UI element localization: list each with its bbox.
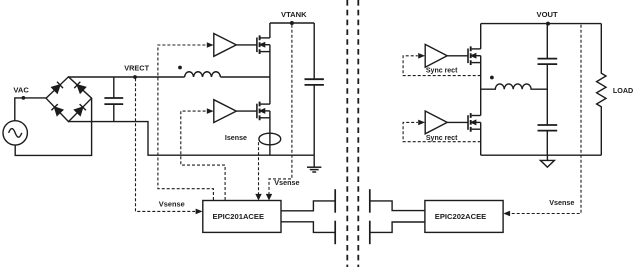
svg-text:Vsense: Vsense bbox=[549, 198, 574, 207]
dashed wire gate drive 1 bbox=[158, 45, 214, 200]
dashed wire sync sense bottom bbox=[403, 122, 481, 141]
node VRECT dot bbox=[133, 75, 137, 79]
arrow into driver U1B bbox=[207, 108, 214, 114]
IC U2 EPIC201ACEE box bbox=[203, 201, 281, 233]
arrow into driver U1A bbox=[207, 42, 214, 48]
wire switch node vertical bbox=[269, 45, 271, 104]
gate driver U1B bbox=[214, 100, 237, 123]
wire VRECT rail bbox=[69, 76, 185, 78]
transistor Q2 bbox=[257, 102, 270, 121]
bridge rectifier diamond bbox=[46, 77, 92, 122]
wire U1B output to Q2 gate bbox=[236, 110, 257, 112]
capacitor plate right top bbox=[369, 189, 371, 213]
node VTANK dot bbox=[290, 21, 294, 25]
transistor Q4 bbox=[468, 113, 481, 132]
wire bottom rail right bbox=[481, 154, 602, 156]
arrow into EPIC201 top (Isense) bbox=[255, 194, 261, 201]
wire VOUT top rail bbox=[481, 23, 602, 25]
dashed wire gate drive 2 bbox=[181, 111, 225, 200]
wire L1 to switch node bbox=[220, 76, 270, 78]
arrow into driver U4B bbox=[418, 120, 425, 126]
wire Q1 drain up bbox=[269, 23, 271, 38]
svg-text:VRECT: VRECT bbox=[124, 63, 149, 72]
arrow into driver U4A bbox=[418, 53, 425, 59]
dashed wire Vsense from VTANK node bbox=[269, 25, 292, 194]
svg-text:LOAD: LOAD bbox=[613, 86, 633, 95]
wire U1A output to Q1 gate bbox=[236, 44, 257, 46]
capacitor plate left bottom bbox=[334, 221, 336, 245]
isolation barrier dashed line 2 bbox=[357, 0, 359, 267]
diode D2 bbox=[74, 82, 85, 93]
diode D3 bbox=[51, 104, 62, 115]
capacitor C4 output bottom bbox=[538, 125, 558, 155]
svg-text:VOUT: VOUT bbox=[537, 10, 558, 19]
transistor Q1 bbox=[257, 35, 270, 54]
dashed wire Vsense from VOUT bbox=[511, 25, 582, 214]
wire Q3 drain to VOUT rail bbox=[480, 24, 482, 49]
node VOUT dot bbox=[546, 22, 550, 26]
IC U3 EPIC202ACEE box bbox=[425, 201, 503, 233]
load resistor RL bbox=[597, 24, 606, 156]
wire VAC bottom lead bbox=[15, 98, 91, 155]
dashed wire sync sense top bbox=[403, 56, 481, 76]
svg-text:Vsense: Vsense bbox=[274, 178, 299, 187]
wire coupling left bottom bbox=[281, 222, 335, 233]
wire VAC top lead bbox=[15, 98, 46, 121]
isolation barrier dashed line 1 bbox=[346, 0, 348, 267]
wire Q2 source to ground rail bbox=[269, 111, 271, 155]
wire Q3 source / Q4 drain vertical bbox=[480, 56, 482, 116]
dashed wire Vsense from VRECT node bbox=[136, 78, 196, 211]
gate driver U1A bbox=[214, 34, 237, 57]
arrow into EPIC202 right edge bbox=[503, 211, 510, 217]
diode D4 bbox=[75, 104, 86, 115]
svg-text:VAC: VAC bbox=[13, 86, 29, 95]
wire DC return to ground rail bbox=[69, 122, 315, 156]
capacitor plate right bottom bbox=[369, 221, 371, 245]
inductor L2 bbox=[481, 84, 548, 89]
inductor L1 bbox=[185, 72, 221, 77]
wire coupling left top bbox=[281, 201, 335, 211]
wire coupling right top bbox=[370, 201, 425, 211]
svg-text:EPIC201ACEE: EPIC201ACEE bbox=[213, 212, 265, 221]
capacitor plate left top bbox=[334, 189, 336, 213]
svg-text:Vsense: Vsense bbox=[159, 200, 185, 209]
transistor Q3 bbox=[468, 46, 481, 65]
capacitor C2 tank bbox=[305, 23, 324, 155]
current sensor Isense ellipse bbox=[259, 133, 281, 145]
dashed wire Isense to EPIC201 bbox=[258, 142, 260, 194]
capacitor C1 input filter bbox=[104, 77, 123, 122]
wire Q4 source to bottom rail bbox=[480, 122, 482, 155]
svg-text:Sync rect: Sync rect bbox=[426, 135, 458, 142]
ground triangle (signal gnd) bbox=[540, 155, 554, 167]
L2 polarity dot bbox=[490, 76, 494, 80]
svg-text:EPIC202ACEE: EPIC202ACEE bbox=[435, 212, 487, 221]
arrow into EPIC201 left edge bbox=[196, 209, 203, 215]
gate driver U4A sync rect top bbox=[425, 44, 447, 67]
wire VTANK top rail bbox=[270, 22, 314, 24]
ground earth symbol bbox=[307, 155, 321, 172]
svg-text:Sync rect: Sync rect bbox=[426, 67, 458, 74]
svg-text:VTANK: VTANK bbox=[281, 10, 307, 19]
wire U4B output to Q4 gate bbox=[447, 121, 468, 123]
gate driver U4B sync rect bottom bbox=[425, 111, 447, 134]
svg-text:Isense: Isense bbox=[225, 134, 247, 142]
node VAC dot bbox=[22, 96, 26, 100]
arrow into EPIC201 top (Vsense) bbox=[266, 194, 272, 201]
AC source VAC bbox=[3, 121, 27, 145]
wire U4A output to Q3 gate bbox=[447, 55, 468, 57]
wire coupling right bottom bbox=[370, 222, 425, 232]
diode D1 bbox=[52, 82, 63, 93]
L1 polarity dot bbox=[178, 66, 182, 70]
capacitor C3 output top bbox=[538, 24, 558, 125]
